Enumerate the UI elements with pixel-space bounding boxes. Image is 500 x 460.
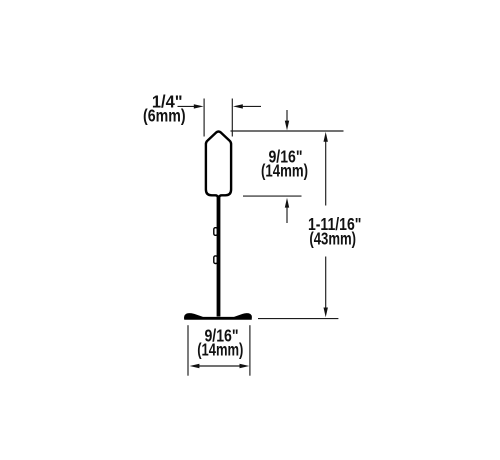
extension line bulb bottom [243, 195, 302, 197]
flange (bottom cap) [184, 313, 252, 320]
svg-text:(14mm): (14mm) [261, 161, 308, 181]
arrow pointing down at bulb top (9/16 dim) [286, 110, 288, 121]
bulb (profile top) [206, 132, 231, 198]
svg-text:(6mm): (6mm) [143, 106, 186, 126]
extension line flange bottom right [258, 318, 338, 320]
dimension double arrow flange width [197, 365, 241, 367]
svg-text:(14mm): (14mm) [197, 340, 243, 360]
arrow pointing up at bulb bottom (9/16 dim) [286, 208, 288, 224]
clip tab lower [214, 256, 218, 264]
dimension line overall height (1-11/16) lower segment [325, 257, 327, 311]
extension line bulb top [231, 130, 344, 132]
extension line flange width left [187, 325, 189, 376]
leader arrow pointing right (1/4 dim left) [178, 105, 196, 107]
clip tab upper [214, 228, 218, 236]
svg-text:(43mm): (43mm) [309, 228, 356, 248]
stem (vertical web) [217, 196, 221, 316]
extension line right of 1/4 dim [231, 99, 233, 137]
extension line flange width right [249, 325, 251, 376]
extension line left of 1/4 dim [203, 99, 205, 137]
dimension line overall height (1-11/16) upper segment [325, 139, 327, 206]
leader arrow pointing left (1/4 dim right) [242, 105, 261, 107]
